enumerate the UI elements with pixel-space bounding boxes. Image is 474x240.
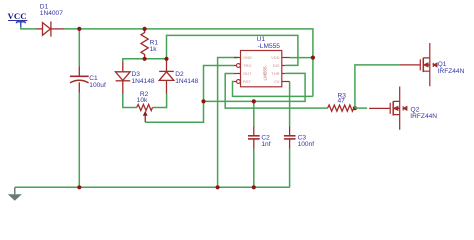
node rail-R1 <box>143 27 147 31</box>
svg-text:RST: RST <box>243 79 252 84</box>
svg-text:1k: 1k <box>150 46 158 53</box>
svg-text:47: 47 <box>338 97 346 104</box>
wire RST to VCC link <box>233 82 313 97</box>
wiper arrow R2 <box>143 111 148 116</box>
wire OUT net <box>225 74 327 109</box>
diode D3 <box>115 62 130 94</box>
resistor R1 <box>141 29 148 59</box>
node D2 top <box>164 57 168 61</box>
wire top VCC rail <box>64 29 313 97</box>
svg-text:TRG: TRG <box>243 63 251 68</box>
wire wiper to TRG <box>145 66 234 123</box>
svg-text:IRFZ44N: IRFZ44N <box>438 68 465 75</box>
svg-text:100nf: 100nf <box>298 141 315 148</box>
svg-text:VCC: VCC <box>8 11 27 21</box>
svg-text:GND: GND <box>243 55 252 60</box>
node gnd-C2 <box>252 185 256 189</box>
svg-text:1N4007: 1N4007 <box>40 10 63 17</box>
node gnd-C1 <box>77 185 81 189</box>
diode D2 <box>159 59 174 94</box>
pin circle TRG <box>237 64 241 68</box>
capacitor C1 <box>78 29 80 67</box>
transistor Q2 <box>369 86 407 129</box>
trimmer resistor R2 <box>123 94 137 108</box>
node rail-C1 <box>77 27 81 31</box>
svg-text:LM555: LM555 <box>262 66 267 80</box>
capacitor C3 <box>289 82 291 127</box>
svg-text:1nf: 1nf <box>261 141 270 148</box>
svg-text:IRFZ44N: IRFZ44N <box>410 113 437 120</box>
wire DIS net <box>167 35 298 65</box>
power symbol VCC <box>17 22 26 27</box>
svg-text:THR: THR <box>271 71 279 76</box>
op-amp U1 LM555 box <box>241 51 282 87</box>
IC pin stubs <box>234 58 290 82</box>
node R1 bottom <box>143 57 147 61</box>
node R3-gates <box>353 106 357 110</box>
resistor R3 <box>328 105 354 111</box>
svg-text:100uf: 100uf <box>89 82 106 89</box>
diode D1 <box>37 22 65 37</box>
node VDD <box>311 56 315 60</box>
wire VDD pin link <box>290 57 313 59</box>
wire R1 bottom to diodes <box>123 59 167 62</box>
transistor Q1 <box>399 43 437 86</box>
svg-text:-LM555: -LM555 <box>258 43 281 50</box>
svg-text:1N4148: 1N4148 <box>132 78 155 85</box>
node gnd-IC <box>216 185 220 189</box>
wire VCC to D1 <box>21 27 37 29</box>
node A TRG <box>201 99 205 103</box>
svg-text:VDD: VDD <box>271 55 280 60</box>
wire R3 node to gates <box>355 65 399 108</box>
svg-text:CV: CV <box>274 79 280 84</box>
svg-text:OUT: OUT <box>243 71 252 76</box>
capacitor C2 <box>253 101 255 126</box>
node B THR-C2 <box>252 99 256 103</box>
wire TRG-THR link <box>204 73 306 101</box>
wire ground rail <box>15 186 290 188</box>
wire GND net <box>218 58 238 188</box>
ground symbol <box>14 187 16 194</box>
svg-text:10k: 10k <box>137 97 148 104</box>
svg-text:DIS: DIS <box>273 63 280 68</box>
pin circle RST <box>237 80 241 84</box>
svg-text:1N4148: 1N4148 <box>175 78 198 85</box>
